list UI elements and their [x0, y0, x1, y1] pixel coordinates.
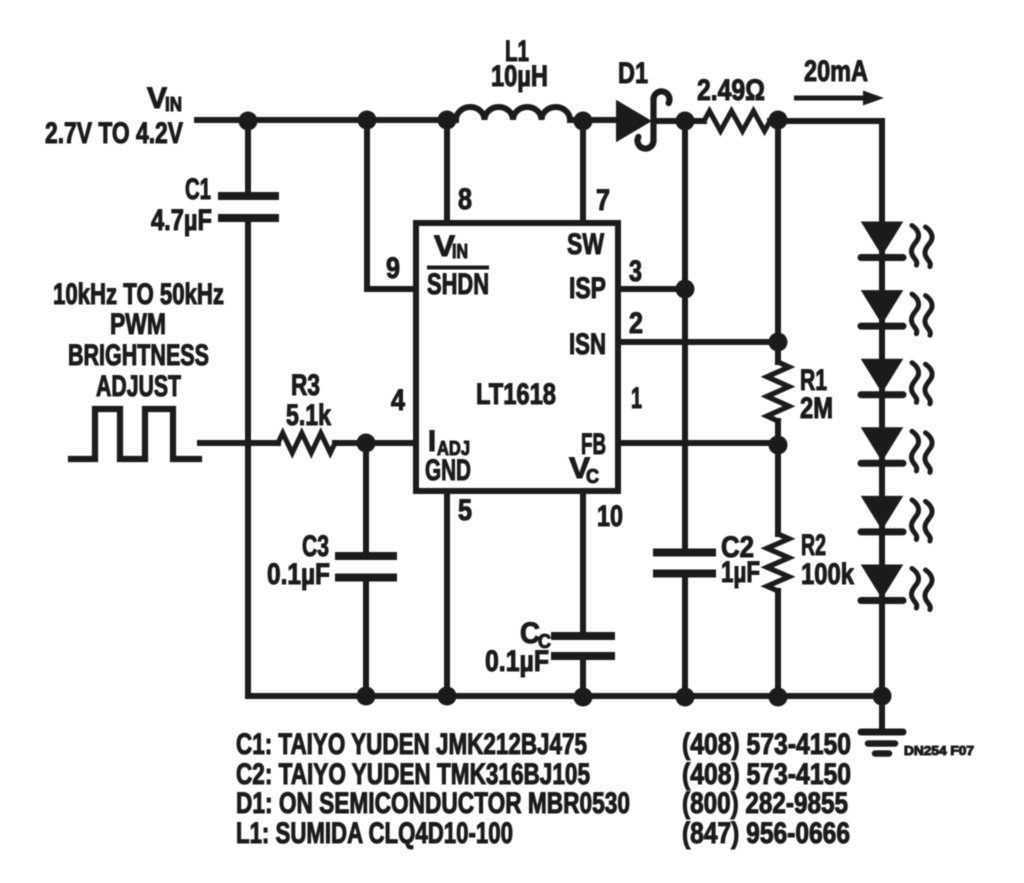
svg-text:C: C	[586, 466, 599, 488]
svg-text:ISN: ISN	[569, 328, 606, 361]
svg-text:9: 9	[386, 252, 400, 285]
svg-text:DN254 F07: DN254 F07	[904, 743, 974, 758]
svg-text:7: 7	[596, 184, 610, 217]
svg-text:10µH: 10µH	[491, 60, 548, 93]
svg-text:D1: ON SEMICONDUCTOR MBR0530: D1: ON SEMICONDUCTOR MBR0530	[236, 787, 630, 820]
svg-text:2M: 2M	[800, 392, 833, 425]
svg-text:BRIGHTNESS: BRIGHTNESS	[68, 339, 209, 372]
svg-text:GND: GND	[425, 454, 471, 487]
svg-text:IN: IN	[165, 94, 182, 116]
svg-text:0.1µF: 0.1µF	[485, 645, 549, 678]
svg-text:5: 5	[458, 494, 472, 527]
svg-text:LT1618: LT1618	[476, 378, 556, 411]
svg-text:0.1µF: 0.1µF	[267, 558, 330, 591]
svg-text:(408) 573-4150: (408) 573-4150	[682, 728, 851, 761]
svg-text:1µF: 1µF	[721, 556, 760, 589]
svg-text:SHDN: SHDN	[427, 268, 489, 301]
svg-text:L1: SUMIDA CLQ4D10-100: L1: SUMIDA CLQ4D10-100	[236, 817, 513, 850]
svg-text:ADJUST: ADJUST	[96, 370, 181, 403]
svg-text:C1: TAIYO YUDEN JMK212BJ475: C1: TAIYO YUDEN JMK212BJ475	[236, 728, 587, 761]
svg-text:5.1k: 5.1k	[286, 399, 331, 432]
svg-text:D1: D1	[618, 57, 648, 90]
svg-text:1: 1	[631, 382, 642, 415]
svg-text:C1: C1	[185, 173, 211, 206]
svg-text:2.7V TO 4.2V: 2.7V TO 4.2V	[45, 117, 183, 150]
svg-text:(800) 282-9855: (800) 282-9855	[682, 787, 848, 820]
svg-text:2.49Ω: 2.49Ω	[697, 74, 765, 107]
svg-text:2: 2	[629, 307, 643, 340]
svg-text:4: 4	[391, 384, 405, 417]
svg-text:IN: IN	[452, 241, 468, 263]
svg-text:8: 8	[458, 183, 472, 216]
svg-text:3: 3	[629, 255, 642, 288]
svg-text:ISP: ISP	[569, 272, 606, 305]
svg-text:10kHz TO 50kHz: 10kHz TO 50kHz	[53, 278, 224, 311]
svg-text:V: V	[147, 82, 167, 115]
svg-text:SW: SW	[567, 228, 605, 261]
svg-text:(847) 956-0666: (847) 956-0666	[682, 817, 850, 850]
svg-text:10: 10	[597, 500, 623, 533]
svg-text:PWM: PWM	[110, 308, 166, 341]
svg-text:100k: 100k	[801, 558, 854, 591]
svg-text:20mA: 20mA	[804, 55, 868, 88]
svg-text:4.7µF: 4.7µF	[151, 204, 212, 237]
svg-text:R3: R3	[291, 369, 320, 402]
